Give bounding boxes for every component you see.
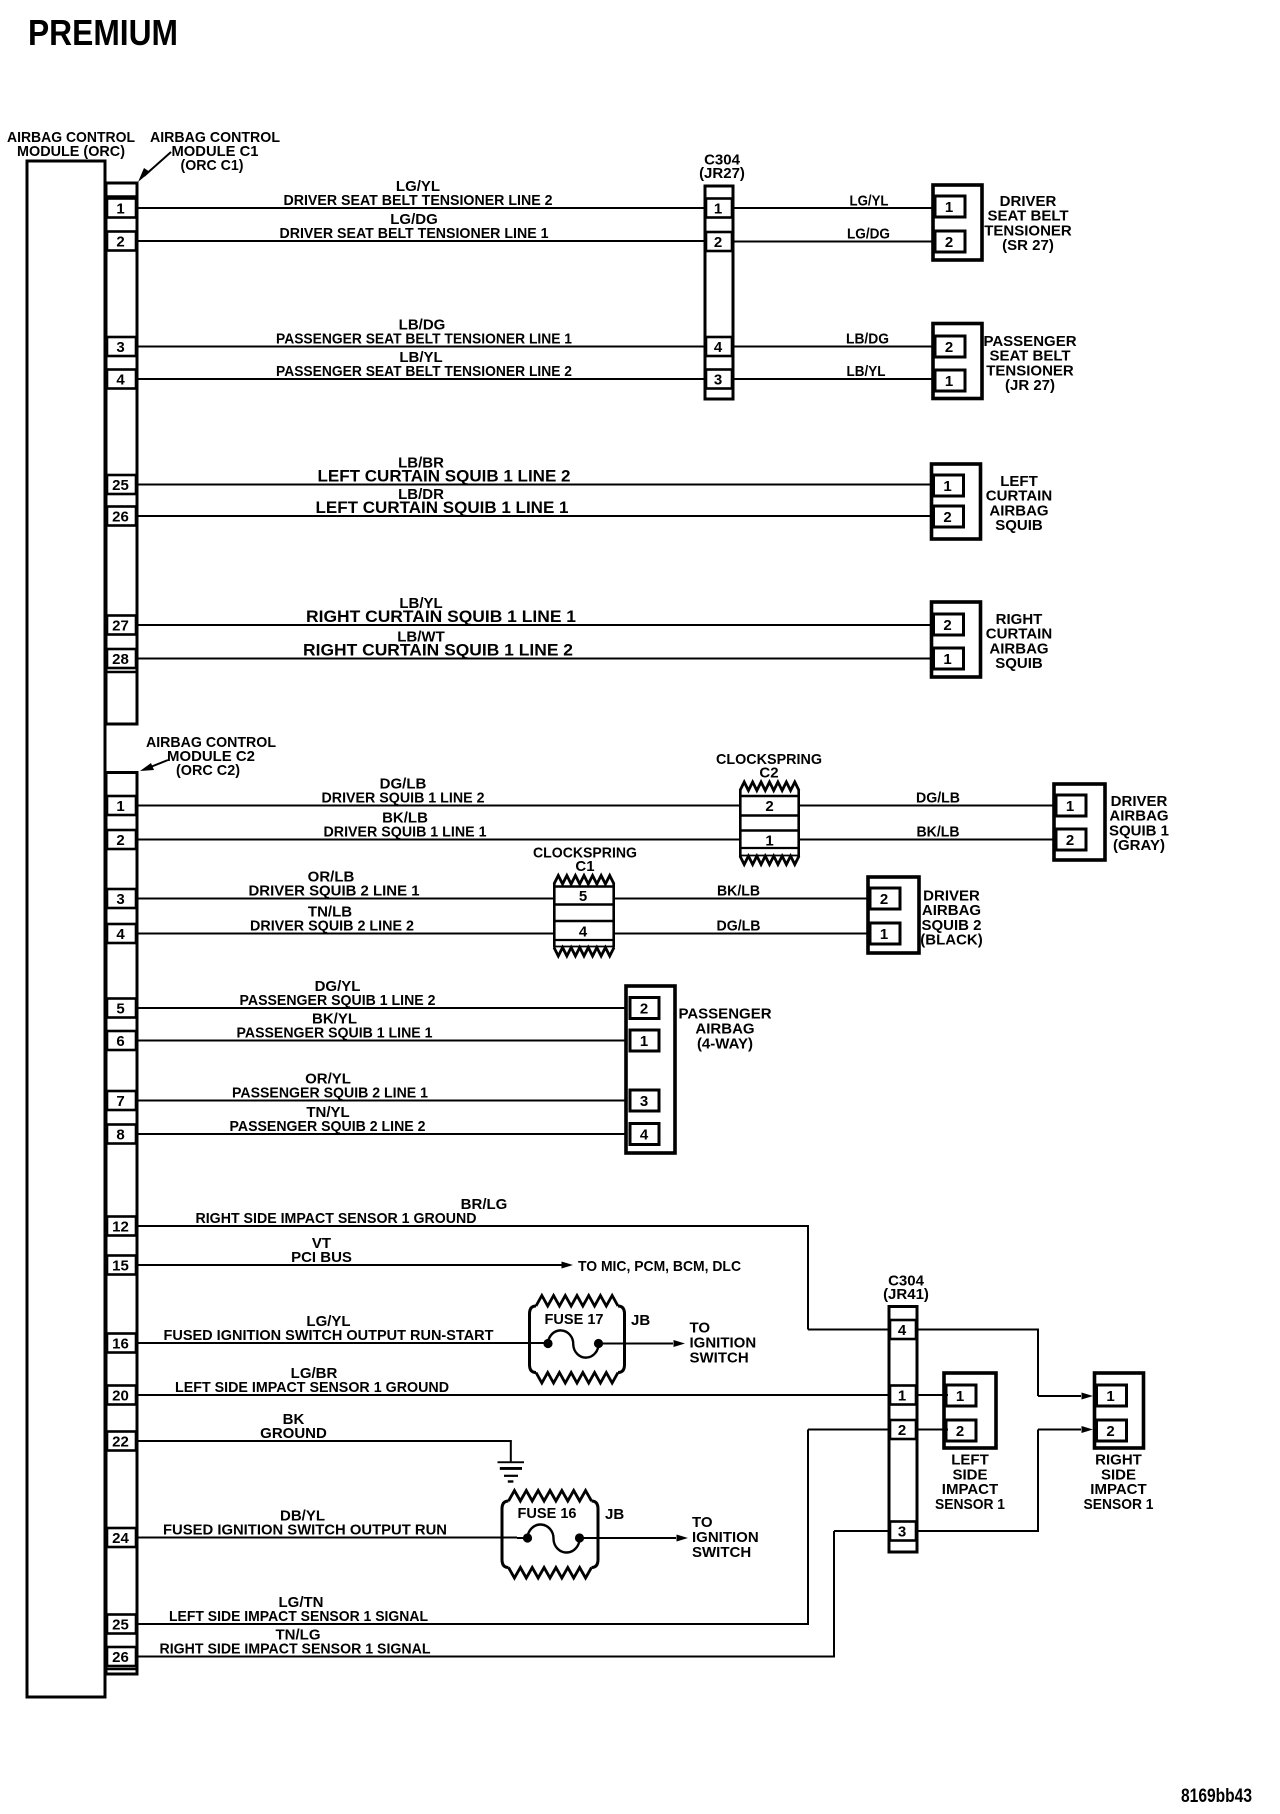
ORC C2 pin 7 cell [107,1091,136,1110]
svg-text:PASSENGER SEAT BELT TENSIONER: PASSENGER SEAT BELT TENSIONER LINE 1 [276,331,572,348]
wire ORC C2-16 to fuse 17 : LG/YL FUSED IGNITION SWITCH OUTPUT RUN-START [137,1313,544,1344]
svg-text:FUSE 16: FUSE 16 [518,1505,577,1522]
svg-text:4: 4 [640,1127,649,1144]
label AIRBAG CONTROL MODULE C2 (ORC C2) [146,734,276,779]
svg-text:1: 1 [945,199,953,216]
svg-text:28: 28 [112,651,129,668]
svg-text:2: 2 [1106,1423,1114,1440]
svg-text:8: 8 [116,1127,124,1144]
svg-text:7: 7 [116,1093,124,1110]
wire C304-2 to driver tensioner pin 2 : LG/DG [733,226,933,243]
wire ORC C1-27 to right curtain squib pin 2 : LB/YL RIGHT CURTAIN SQUIB 1 LINE 1 [137,595,932,626]
svg-text:SWITCH: SWITCH [690,1350,749,1367]
clockspring C2 label [716,751,822,782]
ORC C1 pin 3 cell [107,337,136,356]
ORC C2 pin 8 cell [107,1125,136,1144]
ORC C2 pin 3 cell [107,889,136,908]
svg-text:5: 5 [579,888,587,905]
svg-text:LB/YL: LB/YL [847,363,886,380]
C304 JR27 pin 3 cell [706,370,732,389]
ORC C2 pin 26 cell [107,1647,136,1666]
svg-text:PCI BUS: PCI BUS [291,1249,352,1266]
wire fuse 16 to ignition switch arrow [517,1535,688,1542]
svg-text:LG/YL: LG/YL [850,193,889,210]
svg-text:JB: JB [605,1506,624,1523]
svg-text:15: 15 [112,1258,129,1275]
wire clockspring C1 pin 5 to driver airbag squib 2 pin 2 : BK/LB [615,883,868,900]
label DRIVER AIRBAG SQUIB 2 (BLACK) [920,888,982,949]
label TO IGNITION SWITCH (fuse 17) [690,1320,757,1367]
svg-text:16: 16 [112,1336,129,1353]
svg-text:2: 2 [880,891,888,908]
ORC C2 pin 20 cell [107,1386,136,1405]
connector PASSENGER AIRBAG (4-WAY) [626,986,675,1153]
connector LEFT CURTAIN AIRBAG SQUIB [932,464,981,539]
svg-text:GROUND: GROUND [260,1425,327,1442]
label PASSENGER SEAT BELT TENSIONER (JR 27) [983,333,1076,394]
svg-text:2: 2 [945,234,953,251]
svg-text:4: 4 [116,926,125,943]
C304 JR41 pin 1 cell [890,1386,916,1405]
ORC C1 pin 2 cell [107,232,136,251]
svg-text:PASSENGER SQUIB 1 LINE 2: PASSENGER SQUIB 1 LINE 2 [240,992,436,1009]
svg-text:DRIVER SQUIB 2 LINE 2: DRIVER SQUIB 2 LINE 2 [250,918,414,935]
svg-text:3: 3 [116,339,124,356]
svg-text:DG/LB: DG/LB [916,790,960,807]
wire C304 JR41 pin 1 to left side impact sensor pin 1 [917,1394,948,1396]
svg-text:12: 12 [112,1219,129,1236]
svg-text:22: 22 [112,1434,129,1451]
connector PASSENGER SEAT BELT TENSIONER (JR 27) [933,324,982,399]
wire clockspring C1 pin 4 to driver airbag squib 2 pin 1 : DG/LB [615,918,868,935]
svg-text:(ORC C2): (ORC C2) [176,762,240,779]
label TO IGNITION SWITCH (fuse 16) [692,1514,759,1561]
svg-text:RIGHT CURTAIN SQUIB 1 LINE 2: RIGHT CURTAIN SQUIB 1 LINE 2 [303,641,573,660]
ground symbol [498,1461,525,1482]
C304 JR41 pin 4 cell [890,1320,916,1339]
svg-text:LEFT SIDE IMPACT SENSOR 1 SIGN: LEFT SIDE IMPACT SENSOR 1 SIGNAL [169,1608,428,1625]
label AIRBAG CONTROL MODULE (ORC) [7,129,135,160]
svg-text:PASSENGER SQUIB 2 LINE 1: PASSENGER SQUIB 2 LINE 1 [232,1085,428,1102]
C304 JR27 pin 4 cell [706,337,732,356]
svg-text:4: 4 [116,372,125,389]
connector RIGHT SIDE IMPACT SENSOR 1 [1095,1373,1144,1448]
wire clockspring C2 pin 2 to driver airbag squib 1 pin 1 : DG/LB [800,790,1054,807]
svg-text:C1: C1 [575,858,594,875]
connector RIGHT CURTAIN AIRBAG SQUIB [932,602,981,677]
svg-text:FUSED IGNITION SWITCH OUTPUT R: FUSED IGNITION SWITCH OUTPUT RUN [163,1522,447,1539]
svg-text:FUSE 17: FUSE 17 [545,1311,604,1328]
svg-text:PASSENGER SQUIB 1 LINE 1: PASSENGER SQUIB 1 LINE 1 [237,1025,433,1042]
C304 JR27 pin 2 cell [706,232,732,251]
wire clockspring C2 pin 1 to driver airbag squib 1 pin 2 : BK/LB [800,824,1054,841]
wire ORC C2-15 PCI bus : VT PCI BUS to MIC PCM BCM DLC [137,1235,741,1275]
svg-text:LEFT CURTAIN SQUIB 1 LINE 1: LEFT CURTAIN SQUIB 1 LINE 1 [316,498,569,517]
clockspring C1 label [533,845,637,876]
svg-text:1: 1 [765,833,773,850]
wire ORC C2-2 to clockspring C2 pin 1 : BK/LB DRIVER SQUIB 1 LINE 1 [137,810,739,841]
ORC C2 pin 25 cell [107,1615,136,1634]
clockspring C2 box [739,782,800,865]
leader arrow to ORC C1 [138,152,171,182]
svg-text:1: 1 [116,798,124,815]
svg-text:1: 1 [640,1033,648,1050]
svg-text:2: 2 [956,1423,964,1440]
svg-text:LB/DG: LB/DG [846,331,889,348]
label LEFT SIDE IMPACT SENSOR 1 [935,1452,1005,1513]
svg-text:1: 1 [880,926,888,943]
wire fuse 17 to ignition switch arrow [544,1340,685,1347]
svg-text:2: 2 [898,1422,906,1439]
connector C304 (JR27) strip [705,186,733,399]
svg-text:4: 4 [898,1322,907,1339]
svg-text:2: 2 [640,1001,648,1018]
ORC C2 pin 12 cell [107,1217,136,1236]
svg-text:25: 25 [112,477,129,494]
svg-text:DRIVER SEAT BELT TENSIONER LIN: DRIVER SEAT BELT TENSIONER LINE 2 [284,192,553,209]
svg-text:1: 1 [714,201,722,218]
wire ORC C1-1 to C304 pin 1 : LG/YL DRIVER SEAT BELT TENSIONER LINE 2 [137,178,705,209]
svg-text:6: 6 [116,1033,124,1050]
svg-text:PREMIUM: PREMIUM [28,12,178,53]
svg-text:27: 27 [112,618,129,635]
svg-text:SQUIB: SQUIB [995,517,1043,534]
label LEFT CURTAIN AIRBAG SQUIB [986,473,1052,534]
label RIGHT CURTAIN AIRBAG SQUIB [986,611,1052,672]
ORC C2 pin 1 cell [107,796,136,815]
fuse FUSE 17 (JB) [530,1296,651,1384]
svg-text:1: 1 [898,1388,906,1405]
svg-text:3: 3 [116,891,124,908]
clockspring C1 box [553,876,615,957]
label RIGHT SIDE IMPACT SENSOR 1 [1084,1452,1154,1513]
C304 JR41 pin 2 cell [890,1420,916,1439]
wire ORC C2-5 to passenger airbag pin 2 : DG/YL PASSENGER SQUIB 1 LINE 2 [137,978,626,1009]
svg-text:SWITCH: SWITCH [692,1544,751,1561]
svg-text:1: 1 [116,201,124,218]
svg-text:1: 1 [945,373,953,390]
ORC C1 pin 28 cell [107,649,136,668]
svg-text:PASSENGER SEAT BELT TENSIONER: PASSENGER SEAT BELT TENSIONER LINE 2 [276,363,572,380]
connector C304 (JR27) label [699,152,745,183]
ORC C2 pin 6 cell [107,1031,136,1050]
svg-text:(4-WAY): (4-WAY) [697,1036,753,1053]
svg-text:8169bb43: 8169bb43 [1181,1786,1252,1807]
svg-text:20: 20 [112,1388,129,1405]
svg-text:DRIVER SEAT BELT TENSIONER LIN: DRIVER SEAT BELT TENSIONER LINE 1 [280,225,549,242]
wire ORC C2-6 to passenger airbag pin 1 : BK/YL PASSENGER SQUIB 1 LINE 1 [137,1011,626,1042]
connector LEFT SIDE IMPACT SENSOR 1 [944,1373,996,1448]
svg-text:SENSOR 1: SENSOR 1 [935,1496,1005,1513]
label PASSENGER AIRBAG (4-WAY) [678,1006,771,1053]
svg-text:DRIVER SQUIB 1 LINE 2: DRIVER SQUIB 1 LINE 2 [322,790,485,807]
ORC C1 pin 1 cell [107,199,136,218]
leader arrow to ORC C2 [140,760,168,771]
ORC C2 pin 2 cell [107,830,136,849]
svg-text:MODULE (ORC): MODULE (ORC) [17,143,125,160]
svg-text:LEFT CURTAIN SQUIB 1 LINE 2: LEFT CURTAIN SQUIB 1 LINE 2 [318,467,571,486]
wire C304 JR41 pin 3 to right side impact sensor pin 2 [917,1426,1093,1532]
connector DRIVER AIRBAG SQUIB 2 (BLACK) [868,877,919,953]
wire ORC C2-12 to C304 JR41 pin 4 : BR/LG RIGHT SIDE IMPACT SENSOR 1 GROUND [137,1196,889,1331]
svg-text:C2: C2 [759,765,778,782]
svg-text:3: 3 [640,1093,648,1110]
svg-text:25: 25 [112,1617,129,1634]
svg-text:SQUIB: SQUIB [995,655,1043,672]
wire ORC C2-4 to clockspring C1 pin 4 : TN/LB DRIVER SQUIB 2 LINE 2 [137,904,553,935]
svg-text:2: 2 [765,798,773,815]
wire ORC C2-7 to passenger airbag pin 3 : OR/YL PASSENGER SQUIB 2 LINE 1 [137,1071,626,1102]
wire ORC C1-3 to C304 pin 4 : LB/DG PASSENGER SEAT BELT TENSIONER LINE 1 [137,317,705,348]
svg-text:DRIVER SQUIB 1 LINE 1: DRIVER SQUIB 1 LINE 1 [324,824,487,841]
svg-text:4: 4 [579,924,588,941]
svg-text:(JR41): (JR41) [883,1286,929,1303]
label AIRBAG CONTROL MODULE C1 (ORC C1) [150,129,280,174]
wire C304-3 to passenger tensioner pin 1 : LB/YL [733,363,933,380]
svg-text:(ORC C1): (ORC C1) [181,157,244,174]
svg-text:LEFT SIDE IMPACT SENSOR 1 GROU: LEFT SIDE IMPACT SENSOR 1 GROUND [175,1379,449,1396]
ORC C1 pin 4 cell [107,370,136,389]
svg-text:RIGHT SIDE IMPACT SENSOR 1 GRO: RIGHT SIDE IMPACT SENSOR 1 GROUND [196,1210,477,1227]
connector DRIVER AIRBAG SQUIB 1 (GRAY) [1054,784,1105,860]
svg-text:26: 26 [112,1649,129,1666]
svg-text:1: 1 [943,651,951,668]
wire C304 JR41 pin 4 to right side impact sensor pin 1 [917,1329,1093,1400]
svg-text:RIGHT CURTAIN SQUIB 1 LINE 1: RIGHT CURTAIN SQUIB 1 LINE 1 [306,607,576,626]
svg-text:(BLACK): (BLACK) [920,932,982,949]
svg-text:2: 2 [1066,832,1074,849]
svg-text:26: 26 [112,509,129,526]
svg-text:3: 3 [714,372,722,389]
svg-text:1: 1 [1066,798,1074,815]
svg-text:LG/DG: LG/DG [847,226,890,243]
connector C304 (JR41) label [883,1273,929,1304]
wire C304-1 to driver tensioner pin 1 : LG/YL [733,193,933,210]
svg-text:5: 5 [116,1001,124,1018]
svg-text:2: 2 [116,832,124,849]
svg-text:2: 2 [945,339,953,356]
ORC C1 pin 25 cell [107,475,136,494]
svg-text:2: 2 [943,509,951,526]
airbag control module (ORC) box [27,161,105,1697]
wire ORC C2-20 to C304 JR41 pin 1 : LG/BR LEFT SIDE IMPACT SENSOR 1 GROUND [137,1365,889,1396]
svg-text:(JR 27): (JR 27) [1005,377,1055,394]
svg-text:1: 1 [1106,1388,1114,1405]
svg-text:2: 2 [116,234,124,251]
ORC C2 pin 15 cell [107,1256,136,1275]
wire ORC C2-26 to C304 JR41 pin 3 : TN/LG RIGHT SIDE IMPACT SENSOR 1 SIGNAL [137,1530,889,1658]
svg-text:(SR 27): (SR 27) [1002,237,1054,254]
svg-text:2: 2 [714,234,722,251]
ORC C2 pin 24 cell [107,1528,136,1547]
wire ORC C2-25 to C304 JR41 pin 2 : LG/TN LEFT SIDE IMPACT SENSOR 1 SIGNAL [137,1429,889,1626]
svg-text:BK/LB: BK/LB [717,883,760,900]
C304 JR27 pin 1 cell [706,199,732,218]
svg-text:1: 1 [943,478,951,495]
wire ORC C2-22 to ground : BK GROUND [137,1411,512,1462]
ORC C2 connector strip [106,773,137,1675]
svg-text:(JR27): (JR27) [699,165,745,182]
svg-text:3: 3 [898,1524,906,1541]
ORC C1 pin 27 cell [107,616,136,635]
wire ORC C1-28 to right curtain squib pin 1 : LB/WT RIGHT CURTAIN SQUIB 1 LINE 2 [137,629,932,660]
svg-text:BK/LB: BK/LB [917,824,960,841]
ORC C2 pin 5 cell [107,999,136,1018]
wire C304 JR41 pin 2 to left side impact sensor pin 2 [917,1429,948,1431]
wire ORC C1-26 to left curtain squib pin 2 : LB/DR LEFT CURTAIN SQUIB 1 LINE 1 [137,486,932,517]
ORC C2 pin 16 cell [107,1334,136,1353]
wire ORC C2-24 to fuse 16 : DB/YL FUSED IGNITION SWITCH OUTPUT RUN [137,1508,517,1539]
svg-text:DG/LB: DG/LB [717,918,761,935]
svg-text:1: 1 [956,1388,964,1405]
C304 JR41 pin 3 cell [890,1522,916,1541]
wire ORC C2-1 to clockspring C2 pin 2 : DG/LB DRIVER SQUIB 1 LINE 2 [137,776,739,807]
wire C304-4 to passenger tensioner pin 2 : LB/DG [733,331,933,348]
ORC C1 pin 26 cell [107,507,136,526]
ORC C2 pin 4 cell [107,924,136,943]
svg-text:DRIVER SQUIB 2 LINE 1: DRIVER SQUIB 2 LINE 1 [249,883,420,900]
connector DRIVER SEAT BELT TENSIONER (SR 27) [933,185,982,260]
svg-text:2: 2 [943,617,951,634]
svg-text:TO MIC, PCM, BCM, DLC: TO MIC, PCM, BCM, DLC [578,1258,741,1275]
svg-text:RIGHT SIDE IMPACT SENSOR 1 SIG: RIGHT SIDE IMPACT SENSOR 1 SIGNAL [160,1641,431,1658]
wire ORC C2-8 to passenger airbag pin 4 : TN/YL PASSENGER SQUIB 2 LINE 2 [137,1104,626,1135]
label DRIVER SEAT BELT TENSIONER (SR 27) [984,193,1072,254]
ORC C2 pin 22 cell [107,1432,136,1451]
svg-text:FUSED IGNITION SWITCH OUTPUT R: FUSED IGNITION SWITCH OUTPUT RUN-START [164,1327,494,1344]
wire ORC C1-2 to C304 pin 2 : LG/DG DRIVER SEAT BELT TENSIONER LINE 1 [137,211,705,242]
connector C304 (JR41) strip [889,1307,917,1553]
svg-text:4: 4 [714,339,723,356]
wire ORC C2-3 to clockspring C1 pin 5 : OR/LB DRIVER SQUIB 2 LINE 1 [137,869,553,900]
fuse FUSE 16 (JB) [502,1491,624,1579]
svg-text:SENSOR 1: SENSOR 1 [1084,1496,1154,1513]
svg-text:JB: JB [631,1312,650,1329]
wire ORC C1-4 to C304 pin 3 : LB/YL PASSENGER SEAT BELT TENSIONER LINE 2 [137,349,705,380]
svg-text:PASSENGER SQUIB 2 LINE 2: PASSENGER SQUIB 2 LINE 2 [230,1118,426,1135]
svg-text:24: 24 [112,1530,129,1547]
ORC C1 connector strip [106,183,137,724]
svg-text:(GRAY): (GRAY) [1113,837,1165,854]
wire ORC C1-25 to left curtain squib pin 1 : LB/BR LEFT CURTAIN SQUIB 1 LINE 2 [137,455,932,486]
label DRIVER AIRBAG SQUIB 1 (GRAY) [1109,793,1169,854]
